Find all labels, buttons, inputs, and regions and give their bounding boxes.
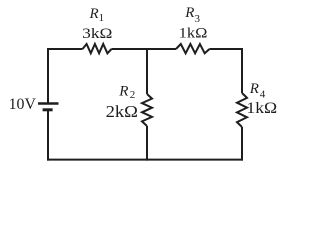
svg-text:R3: R3 (184, 5, 200, 25)
battery V1 positive plate (38, 102, 59, 104)
battery V1 negative plate (43, 108, 53, 111)
svg-text:1kΩ: 1kΩ (179, 26, 208, 42)
resistor R3 (176, 44, 210, 53)
wire left lower: battery minus to bottom corner (47, 111, 49, 161)
resistor R2 (142, 94, 152, 126)
svg-text:3kΩ: 3kΩ (82, 26, 112, 42)
svg-text:10V: 10V (9, 96, 37, 113)
svg-text:R2: R2 (118, 83, 135, 101)
wire right lower: R4 to bottom corner (241, 127, 243, 161)
wire left upper: top corner to battery plus (47, 48, 49, 103)
svg-text:2kΩ: 2kΩ (106, 102, 138, 121)
svg-text:R4: R4 (249, 81, 266, 101)
wire right upper: corner down to R4 (241, 48, 243, 93)
svg-text:1kΩ: 1kΩ (246, 100, 277, 117)
wire bottom (47, 159, 243, 161)
wire middle lower: R2 to bottom node (146, 126, 148, 161)
resistor R4 (237, 93, 247, 127)
svg-text:R1: R1 (89, 6, 105, 24)
wire top-left: corner to R1 (47, 48, 83, 50)
wire middle upper: top node to R2 (146, 48, 148, 94)
resistor R1 (83, 44, 112, 53)
wire top-middle: R1 to R3 through node at R2 top (112, 48, 177, 50)
wire top-right: R3 to corner (210, 48, 244, 50)
